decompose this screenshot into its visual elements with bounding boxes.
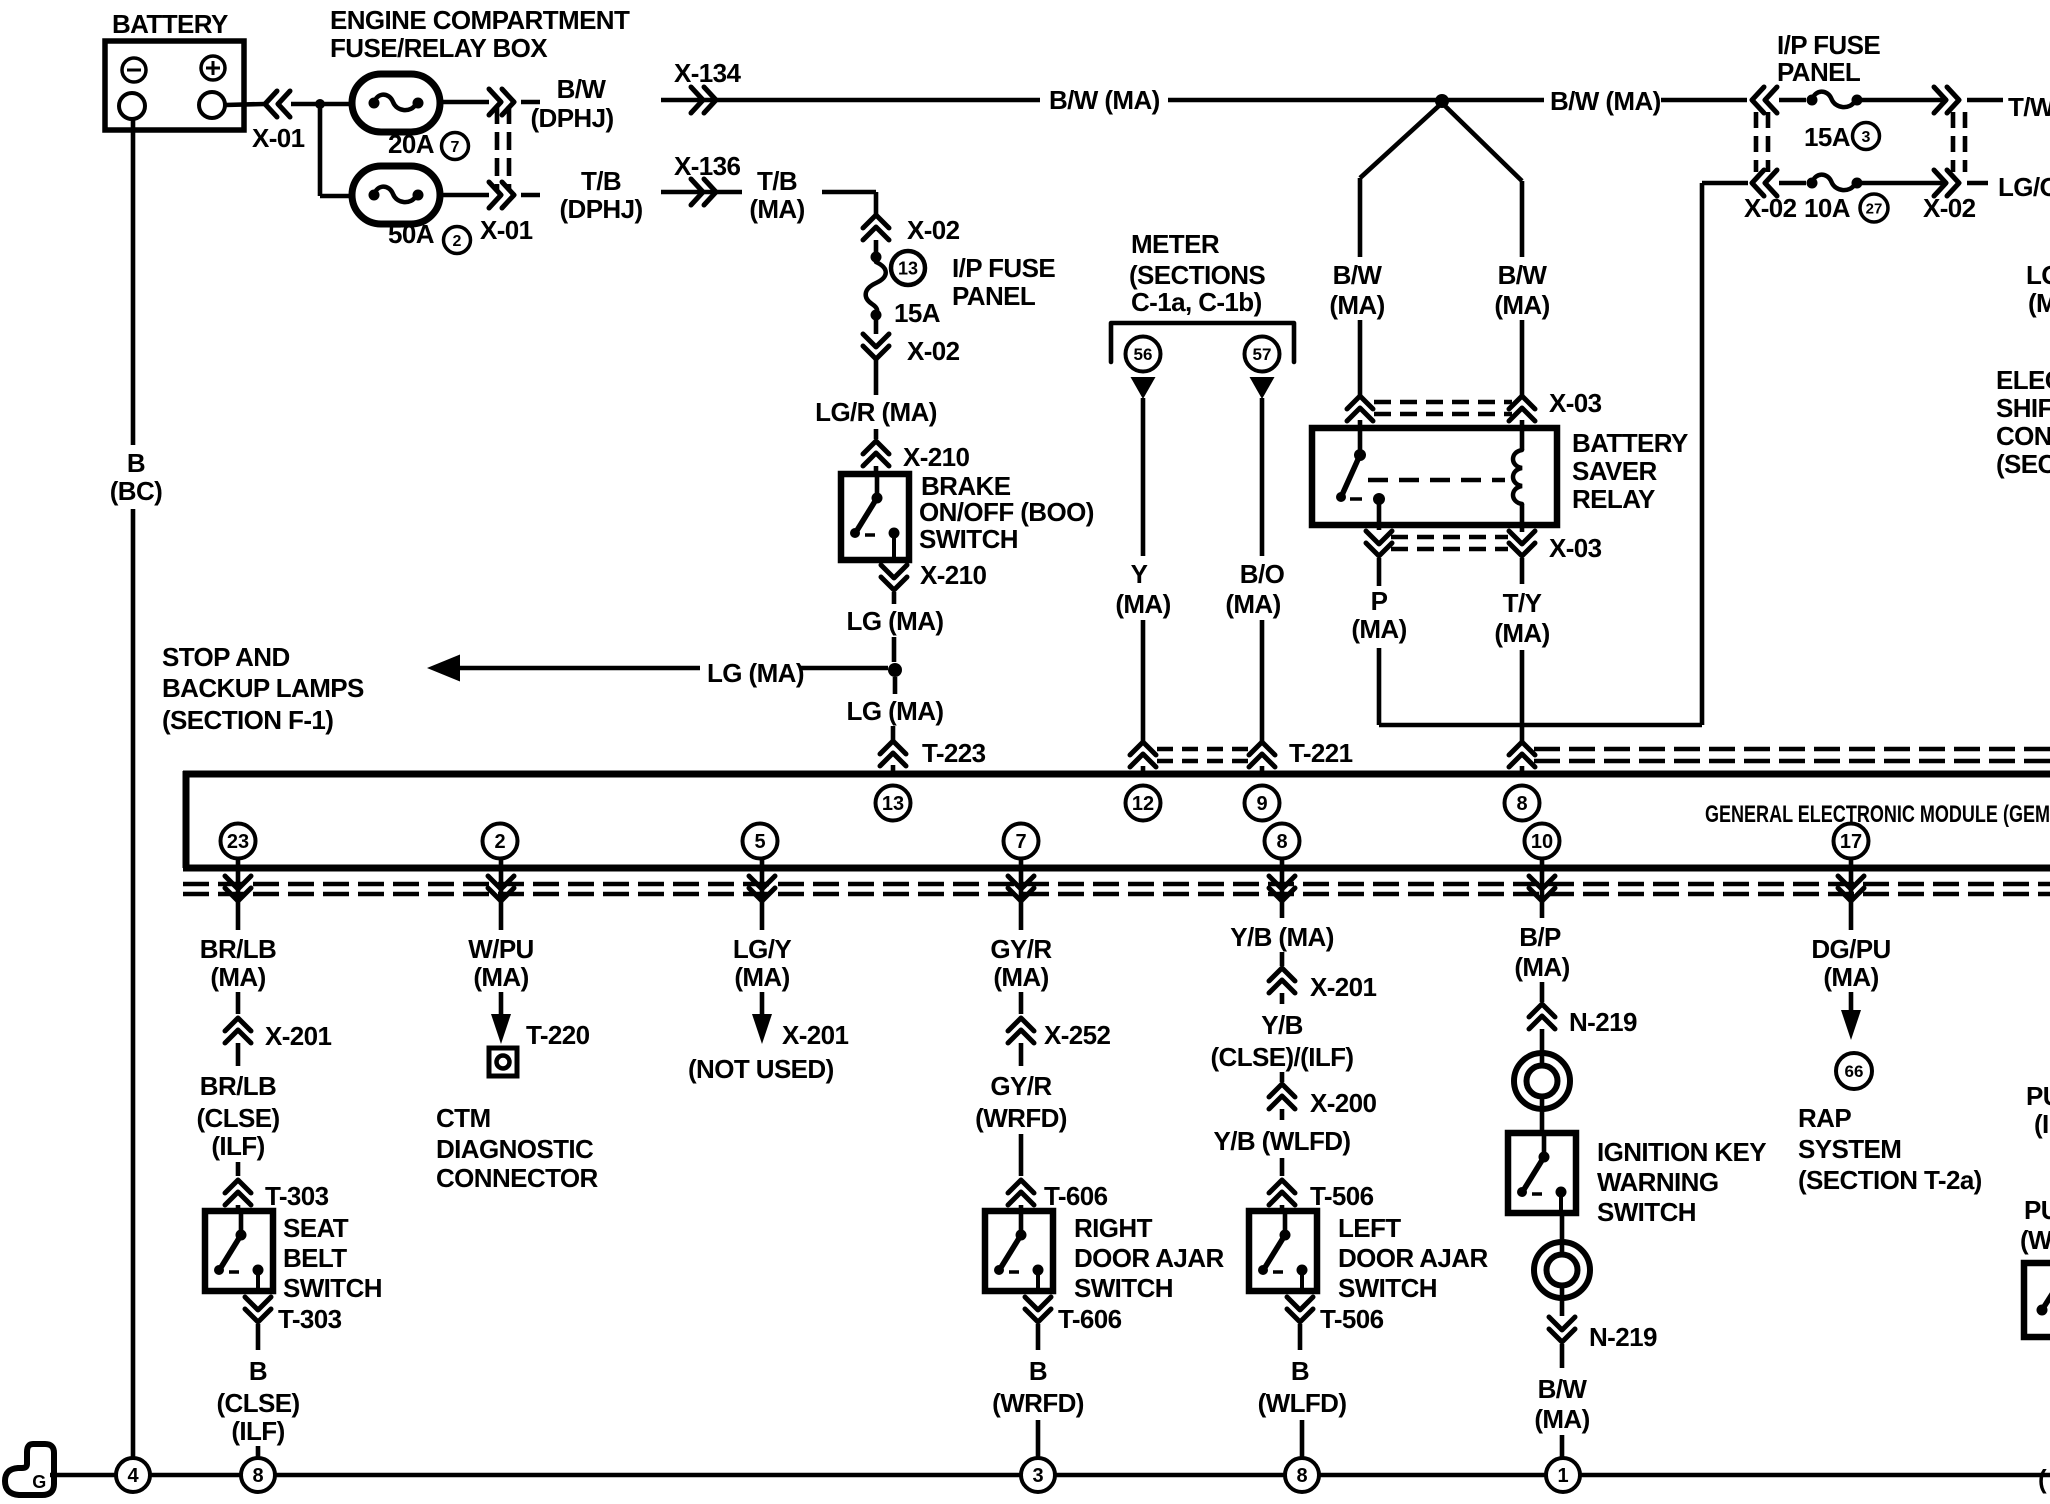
svg-text:X-03: X-03 — [1549, 533, 1602, 563]
svg-text:7: 7 — [451, 139, 460, 156]
svg-text:G: G — [32, 1472, 45, 1492]
svg-text:X-02: X-02 — [907, 336, 960, 366]
svg-text:P: P — [1371, 586, 1388, 616]
svg-text:(NOT USED): (NOT USED) — [688, 1054, 834, 1084]
svg-text:LG (MA): LG (MA) — [707, 658, 804, 688]
svg-text:SWITCH: SWITCH — [1338, 1273, 1437, 1303]
svg-text:I/P FUSE: I/P FUSE — [1777, 30, 1880, 60]
svg-text:SAVER: SAVER — [1572, 456, 1657, 486]
svg-text:SEAT: SEAT — [283, 1213, 349, 1243]
svg-text:T-223: T-223 — [922, 738, 986, 768]
svg-text:X-134: X-134 — [674, 58, 742, 88]
svg-text:(MA): (MA) — [1225, 589, 1280, 619]
svg-text:B/W: B/W — [1538, 1374, 1588, 1404]
svg-text:BR/LB: BR/LB — [200, 1071, 276, 1101]
svg-text:(MA): (MA) — [210, 962, 265, 992]
svg-text:ELECTRONIC: ELECTRONIC — [1996, 365, 2050, 395]
svg-text:T/Y: T/Y — [1503, 588, 1542, 618]
svg-text:LEFT: LEFT — [1338, 1213, 1401, 1243]
svg-text:8: 8 — [1276, 831, 1287, 853]
svg-text:13: 13 — [898, 258, 918, 278]
svg-text:Y: Y — [1131, 559, 1148, 589]
svg-text:(WLFD): (WLFD) — [1258, 1388, 1347, 1418]
svg-text:3: 3 — [1032, 1465, 1043, 1487]
svg-text:(MA): (MA) — [1534, 1404, 1589, 1434]
svg-text:8: 8 — [252, 1465, 263, 1487]
svg-text:T-303: T-303 — [265, 1181, 329, 1211]
svg-text:12: 12 — [1132, 793, 1154, 815]
svg-text:10: 10 — [1531, 831, 1553, 853]
svg-text:2: 2 — [494, 831, 505, 853]
svg-text:8: 8 — [1296, 1465, 1307, 1487]
svg-text:PU: PU — [2024, 1195, 2050, 1225]
svg-text:GENERAL ELECTRONIC MODULE (GEM: GENERAL ELECTRONIC MODULE (GEM — [1705, 801, 2050, 828]
svg-text:Y/B: Y/B — [1261, 1010, 1303, 1040]
svg-text:BATTERY: BATTERY — [1572, 428, 1688, 458]
svg-text:8: 8 — [1516, 793, 1527, 815]
svg-text:(MA): (MA) — [1494, 290, 1549, 320]
svg-text:B/W: B/W — [1498, 260, 1548, 290]
svg-text:13: 13 — [882, 793, 904, 815]
svg-text:X-02: X-02 — [1744, 193, 1797, 223]
svg-text:Y/B (MA): Y/B (MA) — [1230, 922, 1334, 952]
svg-text:X-01: X-01 — [252, 123, 305, 153]
svg-text:(CLSE): (CLSE) — [196, 1103, 279, 1133]
svg-text:(MA): (MA) — [1351, 614, 1406, 644]
svg-text:BELT: BELT — [283, 1243, 347, 1273]
svg-text:5: 5 — [754, 831, 765, 853]
svg-text:N-219: N-219 — [1569, 1007, 1637, 1037]
svg-text:(CLSE)/(ILF): (CLSE)/(ILF) — [1211, 1042, 1354, 1072]
svg-text:DOOR AJAR: DOOR AJAR — [1338, 1243, 1488, 1273]
svg-text:WARNING: WARNING — [1597, 1167, 1718, 1197]
svg-text:CONNECTOR: CONNECTOR — [436, 1163, 599, 1193]
svg-text:ENGINE COMPARTMENT: ENGINE COMPARTMENT — [330, 5, 630, 35]
svg-text:T-303: T-303 — [278, 1304, 342, 1334]
svg-text:PANEL: PANEL — [952, 281, 1036, 311]
svg-text:T-506: T-506 — [1310, 1181, 1374, 1211]
svg-text:(MA): (MA) — [1115, 589, 1170, 619]
svg-text:PANEL: PANEL — [1777, 57, 1861, 87]
svg-text:(SECTION X): (SECTION X) — [1996, 449, 2050, 479]
svg-text:Y/B (WLFD): Y/B (WLFD) — [1214, 1126, 1351, 1156]
svg-text:CONTROL: CONTROL — [1996, 421, 2050, 451]
svg-text:B: B — [127, 448, 145, 478]
svg-text:66: 66 — [1845, 1062, 1864, 1081]
svg-text:(MA): (MA) — [749, 194, 804, 224]
svg-text:RAP: RAP — [1798, 1103, 1851, 1133]
svg-text:T/B: T/B — [757, 166, 797, 196]
svg-text:BACKUP LAMPS: BACKUP LAMPS — [162, 673, 364, 703]
svg-text:15A: 15A — [894, 298, 941, 328]
svg-text:LG/R (MA): LG/R (MA) — [815, 397, 937, 427]
svg-text:(W: (W — [2020, 1225, 2050, 1255]
svg-text:W/PU: W/PU — [468, 934, 533, 964]
svg-text:(WRFD): (WRFD) — [975, 1103, 1067, 1133]
svg-text:LG (MA): LG (MA) — [847, 696, 944, 726]
svg-text:RELAY: RELAY — [1572, 484, 1655, 514]
svg-text:GY/R: GY/R — [990, 1071, 1052, 1101]
svg-text:T/B: T/B — [581, 166, 621, 196]
svg-text:X-201: X-201 — [265, 1021, 332, 1051]
svg-text:B: B — [249, 1356, 267, 1386]
svg-text:(MA): (MA) — [1329, 290, 1384, 320]
svg-text:B: B — [1291, 1356, 1309, 1386]
svg-text:(CLSE): (CLSE) — [216, 1388, 299, 1418]
svg-text:X-200: X-200 — [1310, 1088, 1377, 1118]
svg-text:X-252: X-252 — [1044, 1020, 1111, 1050]
svg-text:ON/OFF (BOO): ON/OFF (BOO) — [919, 497, 1094, 527]
svg-text:SWITCH: SWITCH — [1074, 1273, 1173, 1303]
svg-text:X-01: X-01 — [480, 215, 533, 245]
svg-text:FUSE/RELAY BOX: FUSE/RELAY BOX — [330, 33, 548, 63]
svg-text:X-03: X-03 — [1549, 388, 1602, 418]
svg-text:GY/R: GY/R — [990, 934, 1052, 964]
svg-text:IGNITION KEY: IGNITION KEY — [1597, 1137, 1766, 1167]
svg-text:BR/LB: BR/LB — [200, 934, 276, 964]
svg-text:X-136: X-136 — [674, 151, 741, 181]
svg-text:SYSTEM: SYSTEM — [1798, 1134, 1901, 1164]
svg-text:LG/O: LG/O — [1998, 172, 2050, 202]
svg-text:T-606: T-606 — [1058, 1304, 1122, 1334]
svg-text:C-1a, C-1b): C-1a, C-1b) — [1131, 287, 1262, 317]
svg-text:(MA): (MA) — [1494, 618, 1549, 648]
svg-text:(MA): (MA) — [473, 962, 528, 992]
svg-text:20A: 20A — [388, 129, 435, 159]
svg-text:T-221: T-221 — [1289, 738, 1353, 768]
svg-text:METER: METER — [1131, 229, 1220, 259]
svg-text:SHIFT LOCK: SHIFT LOCK — [1996, 393, 2050, 423]
svg-text:(SECTION F-1): (SECTION F-1) — [162, 705, 333, 735]
svg-text:3: 3 — [1862, 129, 1871, 146]
svg-text:B/W (MA): B/W (MA) — [1049, 85, 1160, 115]
svg-text:(: ( — [2038, 1464, 2047, 1494]
svg-text:DIAGNOSTIC: DIAGNOSTIC — [436, 1134, 594, 1164]
svg-text:(WRFD): (WRFD) — [992, 1388, 1084, 1418]
svg-text:(ILF): (ILF) — [231, 1416, 284, 1446]
svg-text:4: 4 — [127, 1465, 139, 1487]
svg-text:B/W: B/W — [1333, 260, 1383, 290]
svg-text:X-201: X-201 — [782, 1020, 849, 1050]
svg-text:B/W (MA): B/W (MA) — [1550, 86, 1661, 116]
svg-text:(I: (I — [2034, 1109, 2049, 1139]
svg-text:(BC): (BC) — [110, 476, 162, 506]
svg-text:(SECTIONS: (SECTIONS — [1129, 260, 1265, 290]
svg-text:1: 1 — [1557, 1465, 1568, 1487]
svg-text:X-210: X-210 — [920, 560, 987, 590]
svg-text:T/W: T/W — [2008, 92, 2050, 122]
svg-text:15A: 15A — [1804, 122, 1851, 152]
svg-text:B/W: B/W — [557, 74, 607, 104]
svg-text:56: 56 — [1134, 345, 1153, 364]
svg-text:(MA): (MA) — [993, 962, 1048, 992]
svg-text:B/O: B/O — [1240, 559, 1285, 589]
svg-text:CTM: CTM — [436, 1103, 491, 1133]
svg-text:57: 57 — [1253, 345, 1272, 364]
svg-text:X-02: X-02 — [907, 215, 960, 245]
svg-text:SWITCH: SWITCH — [283, 1273, 382, 1303]
svg-text:(DPHJ): (DPHJ) — [530, 103, 613, 133]
svg-text:LG/O: LG/O — [2026, 260, 2050, 290]
svg-text:LG (MA): LG (MA) — [847, 606, 944, 636]
svg-text:(MA): (MA) — [734, 962, 789, 992]
svg-text:50A: 50A — [388, 219, 435, 249]
svg-text:SWITCH: SWITCH — [919, 524, 1018, 554]
svg-text:T-606: T-606 — [1044, 1181, 1108, 1211]
svg-text:RIGHT: RIGHT — [1074, 1213, 1153, 1243]
svg-text:9: 9 — [1256, 793, 1267, 815]
svg-text:7: 7 — [1015, 831, 1026, 853]
svg-text:X-210: X-210 — [903, 442, 970, 472]
svg-text:2: 2 — [453, 233, 462, 250]
svg-text:(SECTION T-2a): (SECTION T-2a) — [1798, 1165, 1982, 1195]
svg-text:(MA): (MA) — [1514, 952, 1569, 982]
svg-text:SWITCH: SWITCH — [1597, 1197, 1696, 1227]
svg-text:10A: 10A — [1804, 193, 1851, 223]
svg-text:T-506: T-506 — [1320, 1304, 1384, 1334]
svg-text:X-201: X-201 — [1310, 972, 1377, 1002]
svg-text:(ILF): (ILF) — [211, 1131, 264, 1161]
svg-text:B/P: B/P — [1519, 922, 1561, 952]
svg-text:N-219: N-219 — [1589, 1322, 1657, 1352]
svg-text:LG/Y: LG/Y — [733, 934, 792, 964]
svg-text:(DPHJ): (DPHJ) — [559, 194, 642, 224]
svg-text:I/P FUSE: I/P FUSE — [952, 253, 1055, 283]
svg-text:STOP AND: STOP AND — [162, 642, 290, 672]
svg-text:PU: PU — [2026, 1081, 2050, 1111]
svg-text:(MA): (MA) — [1823, 962, 1878, 992]
svg-text:T-220: T-220 — [526, 1020, 590, 1050]
svg-text:BATTERY: BATTERY — [112, 9, 228, 39]
svg-text:23: 23 — [227, 831, 249, 853]
svg-text:DOOR AJAR: DOOR AJAR — [1074, 1243, 1224, 1273]
svg-text:B: B — [1029, 1356, 1047, 1386]
svg-text:(MA): (MA) — [2028, 288, 2050, 318]
svg-text:17: 17 — [1840, 831, 1862, 853]
svg-text:X-02: X-02 — [1923, 193, 1976, 223]
svg-text:27: 27 — [1866, 200, 1883, 217]
svg-text:DG/PU: DG/PU — [1811, 934, 1890, 964]
